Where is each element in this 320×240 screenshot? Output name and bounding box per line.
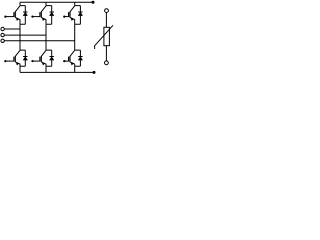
wire emitter to node: [45, 19, 47, 24]
thermistor RT1 body: [104, 27, 110, 45]
wire emitter to node: [19, 64, 21, 66]
DC+ terminal dot: [92, 1, 95, 4]
thermistor diagonal mark: [95, 25, 113, 49]
wire emitter to node: [45, 64, 47, 66]
phase V output wire: [4, 34, 46, 36]
DC- bus (bottom): [20, 71, 94, 73]
IGBT Q3: [63, 6, 75, 21]
wire emitter to node: [19, 19, 21, 24]
diode D1: [23, 6, 27, 25]
DC- terminal dot: [93, 71, 96, 74]
leg 2 node horizontals: [46, 6, 52, 67]
thermistor RT1 top terminal: [105, 9, 109, 13]
phase W terminal: [1, 39, 4, 42]
diode D4: [23, 50, 27, 66]
thermistor top lead wire: [105, 13, 107, 28]
diode D2: [50, 6, 54, 25]
phase V terminal: [1, 33, 4, 36]
thermistor bottom lead wire: [105, 46, 107, 61]
leg 1 node horizontals: [20, 6, 25, 67]
phase W output wire: [4, 40, 74, 42]
thermistor RT1 bottom terminal: [105, 61, 109, 65]
leg 1 vertical wires: [19, 2, 21, 72]
phase U terminal: [1, 27, 4, 30]
phase U output wire: [4, 28, 20, 30]
leg 2 vertical wires: [45, 2, 47, 72]
IGBT Q2: [31, 6, 46, 21]
wire emitter to node: [74, 19, 76, 24]
IGBT Q4: [4, 50, 20, 65]
leg 3 node horizontals: [75, 6, 81, 67]
IGBT Q1: [4, 6, 20, 21]
wire emitter to node: [74, 64, 76, 66]
IGBT Q5: [31, 50, 46, 65]
diode D6: [78, 50, 82, 66]
DC+ bus (top): [20, 1, 93, 3]
IGBT Q6: [63, 50, 75, 65]
leg 3 vertical wires: [74, 2, 76, 72]
diode D3: [78, 6, 82, 25]
diode D5: [50, 50, 54, 66]
